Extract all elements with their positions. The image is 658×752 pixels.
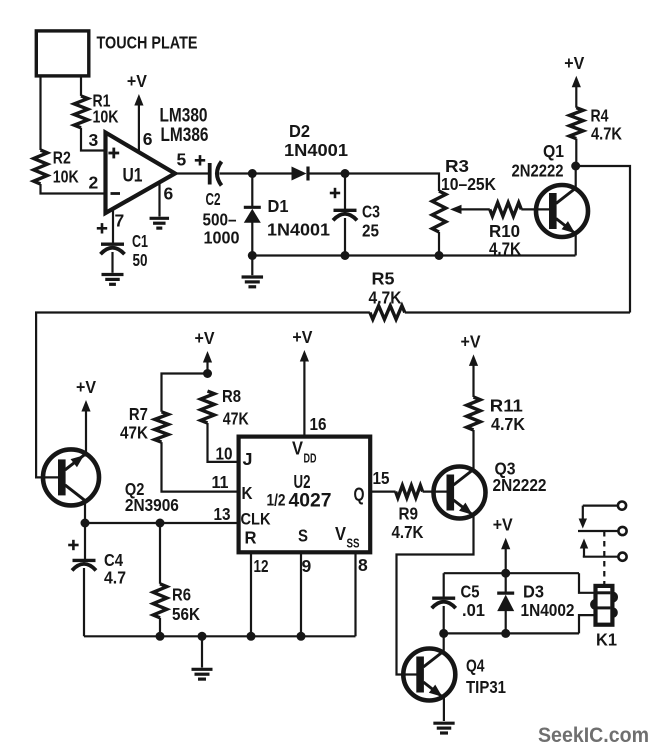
- wire C5 top: [443, 573, 445, 597]
- svg-text:4.7K: 4.7K: [489, 239, 521, 259]
- capacitor C3 25: [330, 188, 380, 241]
- wire Q3 emitter to Q4 base: [397, 515, 474, 675]
- pin 15 label: [373, 468, 390, 488]
- svg-text:4.7: 4.7: [104, 568, 126, 588]
- wire C4 to rail: [83, 568, 85, 636]
- svg-text:6: 6: [143, 129, 153, 149]
- +V supply R8: [195, 328, 215, 374]
- svg-text:2N2222: 2N2222: [493, 475, 547, 495]
- svg-text:7: 7: [115, 211, 125, 231]
- ground main rail: [192, 669, 213, 679]
- transistor Q3 2N2222: [434, 459, 547, 519]
- wire C2 to node A: [220, 172, 253, 174]
- pin 9 label: [302, 556, 312, 576]
- svg-text:+V: +V: [292, 327, 312, 347]
- svg-text:Q: Q: [354, 485, 365, 505]
- wire rail to ground: [251, 256, 253, 276]
- wire touch plate to R1: [80, 76, 82, 96]
- wire R6 bottom: [159, 618, 161, 637]
- contact terminal 2: [618, 527, 626, 535]
- svg-text:Q1: Q1: [543, 141, 564, 161]
- svg-text:Q4: Q4: [466, 656, 485, 676]
- wire loop top to coil: [579, 573, 596, 593]
- +V supply relay: [493, 515, 513, 574]
- contact bottom line: [583, 556, 619, 558]
- node C Q1 collector: [571, 162, 580, 171]
- svg-text:+V: +V: [493, 515, 513, 535]
- node pin12 rail: [247, 632, 256, 641]
- op-amp U1: [106, 133, 176, 214]
- svg-text:4027: 4027: [289, 491, 332, 512]
- svg-text:K1: K1: [596, 630, 617, 650]
- node R6 rail: [156, 632, 165, 641]
- +V supply U1 pin 6: [127, 71, 147, 152]
- svg-text:D1: D1: [268, 196, 289, 216]
- resistor R2 10K: [34, 148, 79, 187]
- wire loop bottom to coil: [579, 615, 596, 633]
- svg-text:D2: D2: [289, 121, 310, 141]
- wire R8 to U2 pin J: [208, 423, 239, 462]
- svg-text:R8: R8: [222, 386, 241, 406]
- svg-text:10K: 10K: [53, 167, 79, 187]
- wire C4 top: [84, 523, 86, 560]
- svg-text:8: 8: [358, 555, 368, 575]
- svg-text:5: 5: [177, 149, 187, 169]
- svg-text:4.7K: 4.7K: [369, 288, 402, 308]
- svg-text:S: S: [298, 526, 308, 546]
- +V supply Q2: [76, 377, 96, 457]
- contact arm down arrow: [579, 506, 587, 529]
- wire touch plate to R2: [39, 76, 41, 150]
- pin 11 label: [212, 472, 229, 492]
- node A junction: [248, 169, 257, 178]
- wire rail to main ground: [201, 636, 203, 667]
- loop bottom line: [444, 632, 579, 634]
- ground rail: [242, 277, 263, 287]
- pin 6 label bottom: [164, 184, 174, 204]
- wire R3 wiper to R10: [461, 208, 490, 210]
- node R3 rail: [435, 251, 444, 260]
- svg-text:9: 9: [302, 556, 312, 576]
- svg-text:15: 15: [373, 468, 390, 488]
- wire CLK line: [85, 522, 239, 524]
- svg-text:V: V: [292, 439, 303, 459]
- wire D3 top: [505, 573, 507, 592]
- diode D1 1N4001: [244, 196, 330, 240]
- svg-text:C2: C2: [206, 189, 221, 209]
- svg-text:R3: R3: [445, 156, 469, 176]
- svg-text:R7: R7: [129, 404, 148, 424]
- wire R5 right: [405, 311, 630, 313]
- resistor R11 4.7K: [467, 396, 526, 435]
- transistor Q4 TIP31: [403, 649, 506, 701]
- wire Q2 collector down: [84, 500, 86, 523]
- wire U2 pin 12: [250, 552, 252, 636]
- resistor R4 4.7K: [570, 106, 623, 144]
- bottom rail: [252, 254, 575, 256]
- svg-text:K: K: [242, 483, 253, 503]
- potentiometer R3 10-25K: [432, 156, 496, 232]
- svg-text:3: 3: [89, 130, 99, 150]
- node pin9 rail: [297, 632, 306, 641]
- svg-text:13: 13: [214, 504, 231, 524]
- svg-text:R2: R2: [53, 148, 71, 168]
- pin 16 label: [310, 414, 327, 434]
- svg-text:+V: +V: [461, 331, 481, 351]
- svg-text:C5: C5: [461, 582, 480, 602]
- svg-text:TOUCH PLATE: TOUCH PLATE: [97, 33, 198, 53]
- wire R5 left to Q2 base: [36, 313, 370, 478]
- svg-text:4.7K: 4.7K: [591, 124, 622, 144]
- svg-text:500–: 500–: [203, 210, 237, 230]
- node D1 rail: [248, 251, 257, 260]
- touch plate: [36, 31, 197, 76]
- wire node to R7 top: [162, 374, 208, 412]
- ground Q4: [433, 723, 454, 733]
- capacitor C5 .01: [432, 582, 486, 621]
- svg-text:2N3906: 2N3906: [125, 495, 179, 515]
- wire U1 output to C2: [175, 172, 208, 174]
- node D3 top: [501, 569, 510, 578]
- svg-text:C3: C3: [362, 202, 380, 222]
- wire R9 to Q3 base: [423, 491, 448, 493]
- svg-text:TIP31: TIP31: [466, 677, 506, 697]
- wire R7 to U2 pin K: [162, 442, 239, 492]
- contact terminal 3: [618, 553, 626, 561]
- svg-text:R9: R9: [399, 504, 419, 524]
- node C3 rail: [341, 251, 350, 260]
- pin 2 label: [89, 173, 99, 193]
- pin 6 label top: [143, 129, 153, 149]
- node Q4 collector: [439, 629, 448, 638]
- bottom ground rail: [84, 635, 356, 637]
- diode D3 1N4002: [497, 582, 575, 621]
- wire C3 top: [344, 174, 346, 210]
- svg-text:10–25K: 10–25K: [441, 174, 496, 194]
- U1 part labels LM380 LM386: [160, 106, 209, 147]
- wire U2 pin 8: [354, 552, 356, 636]
- svg-text:SeekIC.com: SeekIC.com: [538, 723, 649, 747]
- svg-text:56K: 56K: [172, 604, 200, 624]
- capacitor C2 500-1000: [195, 155, 240, 247]
- wire node C right: [576, 166, 630, 313]
- svg-text:V: V: [335, 524, 346, 544]
- svg-text:16: 16: [310, 414, 327, 434]
- wire D3 bottom: [505, 609, 507, 634]
- IC U2 1/2 4027: [239, 437, 371, 553]
- svg-text:+V: +V: [195, 328, 215, 348]
- wire node B to R3 top: [345, 174, 439, 192]
- svg-text:10: 10: [216, 444, 233, 464]
- svg-text:6: 6: [164, 184, 174, 204]
- pin 7 label: [115, 211, 125, 231]
- svg-text:1N4002: 1N4002: [521, 600, 575, 620]
- svg-text:CLK: CLK: [241, 510, 272, 529]
- svg-text:2N2222: 2N2222: [512, 161, 564, 181]
- +V supply R11: [461, 331, 481, 397]
- node R7 R8: [203, 369, 212, 378]
- pin 10 label: [216, 444, 233, 464]
- wire U2 pin 9: [300, 552, 302, 636]
- relay coil K1: [592, 586, 617, 650]
- resistor R8 47K: [201, 386, 249, 429]
- svg-text:U1: U1: [123, 165, 143, 187]
- svg-text:1N4001: 1N4001: [284, 140, 348, 160]
- resistor R10 4.7K: [489, 203, 521, 259]
- transistor Q2 2N3906: [43, 449, 179, 515]
- wire Q4 collector: [443, 633, 445, 652]
- svg-text:2: 2: [89, 173, 99, 193]
- wire R10 to Q1 base: [521, 208, 550, 210]
- svg-text:+V: +V: [564, 53, 584, 73]
- svg-text:DD: DD: [304, 452, 317, 466]
- svg-text:+V: +V: [76, 377, 96, 397]
- contact middle line: [578, 530, 619, 532]
- pin 5 label: [177, 149, 187, 169]
- svg-text:12: 12: [254, 556, 269, 576]
- pin 3 label: [89, 130, 99, 150]
- wire node A to D1: [251, 174, 253, 207]
- wire D2 to node B: [308, 172, 345, 174]
- svg-text:50: 50: [133, 250, 148, 270]
- node B junction: [341, 169, 350, 178]
- svg-text:U2: U2: [294, 472, 311, 492]
- svg-text:C1: C1: [132, 231, 148, 251]
- svg-text:R5: R5: [372, 269, 395, 289]
- svg-text:LM386: LM386: [161, 125, 209, 146]
- svg-text:R6: R6: [172, 585, 191, 605]
- svg-text:R: R: [245, 528, 257, 548]
- ground U1 pin 6: [150, 218, 170, 228]
- svg-text:SS: SS: [347, 537, 360, 551]
- loop top line: [444, 572, 579, 574]
- svg-text:J: J: [243, 449, 253, 469]
- node R6 CLK: [156, 519, 165, 528]
- node ground rail: [198, 632, 207, 641]
- pin 12 label: [254, 556, 269, 576]
- wire U2 Q to R9: [370, 491, 395, 493]
- wire U1 pin 7 to C1: [112, 209, 114, 244]
- capacitor C1 50: [97, 223, 148, 270]
- svg-text:47K: 47K: [223, 409, 249, 429]
- wire R3 bottom: [438, 232, 440, 256]
- wire C5 bottom: [443, 606, 445, 633]
- wire Q4 emitter to ground: [443, 697, 445, 721]
- wire R4 to node C: [575, 139, 577, 166]
- contact terminal 1: [618, 502, 626, 510]
- svg-text:R4: R4: [591, 106, 609, 126]
- svg-text:47K: 47K: [120, 423, 148, 443]
- svg-text:10K: 10K: [93, 107, 119, 127]
- resistor R1 10K: [74, 91, 119, 128]
- wire R2 to U1 pin 2: [41, 184, 106, 194]
- node D3 bottom: [501, 629, 510, 638]
- wire D1 to bottom rail: [251, 223, 253, 256]
- svg-text:+V: +V: [127, 71, 147, 91]
- +V supply U2 pin 16: [292, 327, 312, 437]
- svg-text:1000: 1000: [204, 228, 240, 248]
- wire C3 to bottom rail: [344, 218, 346, 256]
- svg-text:4.7K: 4.7K: [491, 414, 525, 434]
- pin 13 label: [214, 504, 231, 524]
- capacitor C4 4.7: [68, 540, 126, 588]
- ground C1: [102, 275, 124, 285]
- wire C1 to ground: [111, 252, 113, 273]
- contact top line: [583, 505, 618, 507]
- watermark: [538, 723, 649, 747]
- svg-text:D3: D3: [523, 582, 544, 602]
- svg-text:4.7K: 4.7K: [392, 522, 424, 542]
- +V supply R4: [564, 53, 584, 108]
- svg-text:LM380: LM380: [160, 106, 208, 127]
- resistor R6 56K: [153, 584, 200, 624]
- svg-text:1N4001: 1N4001: [267, 220, 330, 240]
- transistor Q1 2N2222: [512, 141, 589, 237]
- pin 8 label: [358, 555, 368, 575]
- resistor R9 4.7K: [392, 485, 424, 542]
- contact arm up arrow: [580, 539, 588, 557]
- svg-text:.01: .01: [462, 600, 485, 620]
- svg-text:11: 11: [212, 472, 229, 492]
- wire node C to Q1 collector: [575, 166, 577, 189]
- wire Q1 emitter to rail: [575, 234, 577, 256]
- node Q2 CLK: [81, 519, 90, 528]
- svg-text:25: 25: [362, 221, 379, 241]
- wire node A to D2: [252, 172, 291, 174]
- wire R6 top: [159, 523, 161, 584]
- wire R1 to U1 pin 3: [81, 128, 105, 151]
- resistor R5 4.7K: [369, 269, 405, 320]
- diode D2 1N4001: [284, 121, 348, 181]
- wire U1 pin 6 bottom: [158, 182, 160, 216]
- svg-text:1/2: 1/2: [267, 491, 286, 510]
- svg-text:R11: R11: [490, 396, 523, 416]
- relay dashed link: [603, 531, 605, 585]
- resistor R7 47K: [120, 404, 168, 443]
- wire R11 to Q3 collector: [472, 430, 474, 471]
